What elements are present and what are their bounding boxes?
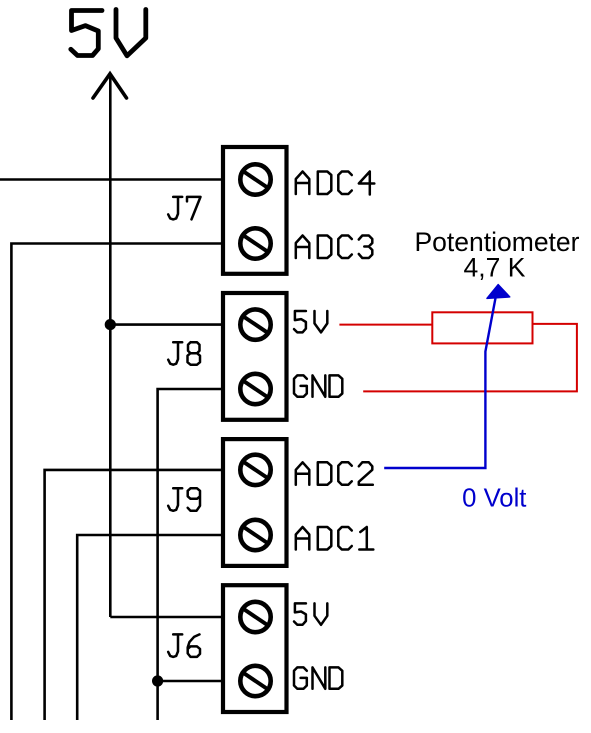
pin label GND J6: [294, 667, 342, 688]
J8 screw terminal 2: [240, 374, 270, 404]
svg-text:4,7 K: 4,7 K: [464, 253, 526, 283]
J6 screw terminal 1: [240, 602, 270, 632]
label J6: [168, 634, 200, 657]
connector J8 body: [223, 293, 287, 420]
potentiometer R1 body: [432, 312, 532, 343]
svg-text:0 Volt: 0 Volt: [462, 485, 526, 513]
wire ADC2 with corner: [45, 470, 222, 720]
pin label GND J8: [294, 375, 342, 396]
red wire potentiometer to GND: [363, 324, 577, 392]
J6 screw terminal 2: [240, 666, 270, 696]
red wire 5V to potentiometer: [339, 324, 432, 326]
junction dot node 5V/J8: [105, 319, 116, 330]
blue wiper arrowhead: [487, 285, 510, 299]
wire J6 GND branch: [158, 680, 222, 683]
J9 screw terminal 2: [240, 520, 270, 550]
pin label 5V J6: [294, 603, 327, 624]
junction dot node GND/J6: [152, 675, 163, 686]
pin label ADC3: [296, 236, 373, 259]
J7 screw terminal 2: [240, 228, 270, 258]
J9 screw terminal 1: [240, 455, 270, 485]
connector J7 body: [223, 147, 287, 274]
wire 5V stem vertical: [109, 74, 112, 617]
wire ADC1 with corner: [77, 535, 221, 720]
pin label ADC1: [296, 527, 374, 550]
pin label ADC2: [296, 462, 373, 485]
power symbol 5V text: [71, 10, 146, 56]
blue wiper wire: [384, 298, 495, 469]
pin label 5V J8: [294, 311, 327, 332]
label J9: [168, 488, 200, 511]
label J7: [168, 197, 200, 220]
label J8: [168, 342, 200, 365]
connector J9 body: [223, 439, 287, 566]
connector J6 body: [223, 585, 287, 712]
wire J8 GND down to J6 GND: [158, 389, 222, 720]
power symbol arrow: [93, 74, 127, 98]
J8 screw terminal 1: [240, 309, 270, 339]
wire ADC3 with corner: [11, 244, 221, 721]
wire J6 5V branch: [110, 616, 221, 619]
pin label ADC4: [296, 172, 375, 195]
wire ADC4 horizontal: [0, 178, 222, 181]
wire J8 5V branch: [110, 323, 221, 326]
J7 screw terminal 1: [240, 164, 270, 194]
